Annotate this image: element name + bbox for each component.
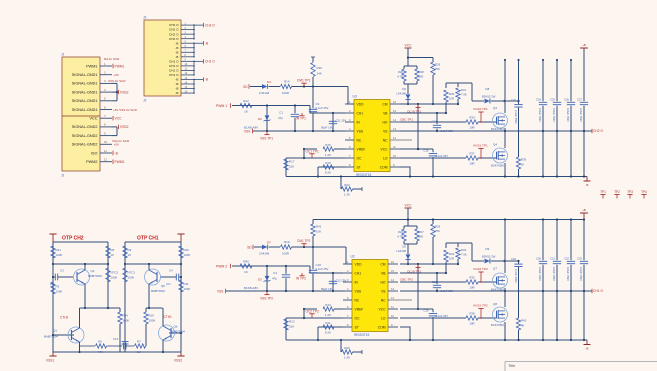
svg-text:100K: 100K bbox=[123, 319, 130, 323]
svg-text:-B: -B bbox=[205, 41, 208, 45]
svg-text:2.2uF 250V: 2.2uF 250V bbox=[514, 110, 518, 124]
svg-text:TP2: TP2 bbox=[614, 190, 620, 194]
svg-text:4.7R: 4.7R bbox=[397, 75, 403, 79]
svg-text:R14: R14 bbox=[284, 80, 290, 84]
svg-text:R19: R19 bbox=[284, 240, 290, 244]
svg-text:VCC: VCC bbox=[115, 117, 123, 121]
svg-text:CH2 O: CH2 O bbox=[169, 28, 179, 32]
svg-text:R37: R37 bbox=[469, 152, 475, 156]
svg-text:PWM2: PWM2 bbox=[86, 160, 97, 164]
svg-text:56pF 16V: 56pF 16V bbox=[321, 126, 333, 130]
svg-text:OC1 TP1: OC1 TP1 bbox=[306, 150, 319, 154]
svg-text:1N4148: 1N4148 bbox=[259, 91, 270, 95]
svg-text:LS4148: LS4148 bbox=[396, 249, 406, 253]
svg-text:12: 12 bbox=[393, 136, 396, 140]
svg-text:800: 800 bbox=[419, 75, 424, 79]
svg-text:C4: C4 bbox=[169, 269, 173, 273]
svg-text:-B: -B bbox=[205, 78, 208, 82]
svg-text:BUK765M: BUK765M bbox=[491, 127, 504, 131]
svg-text:OTP CH1: OTP CH1 bbox=[137, 236, 159, 242]
svg-text:MMBT3904: MMBT3904 bbox=[44, 335, 58, 339]
svg-text:2.2uF 25V: 2.2uF 25V bbox=[436, 154, 449, 158]
svg-text:C33: C33 bbox=[511, 98, 516, 102]
svg-text:75K: 75K bbox=[435, 67, 440, 71]
svg-text:R32: R32 bbox=[449, 252, 455, 256]
svg-text:-B: -B bbox=[175, 50, 178, 54]
svg-text:47p: 47p bbox=[278, 116, 283, 120]
svg-text:51K: 51K bbox=[289, 325, 294, 329]
svg-text:CH1 O: CH1 O bbox=[169, 73, 179, 77]
svg-text:VDD: VDD bbox=[355, 262, 363, 266]
svg-text:SIGNAL-GND2: SIGNAL-GND2 bbox=[72, 143, 98, 147]
svg-text:7.5K: 7.5K bbox=[461, 93, 467, 97]
svg-text:C3: C3 bbox=[60, 269, 64, 273]
svg-text:OC-B TP1: OC-B TP1 bbox=[407, 110, 421, 114]
svg-text:CM1 TP2: CM1 TP2 bbox=[297, 239, 311, 243]
svg-text:VSS2: VSS2 bbox=[120, 90, 129, 94]
svg-text:R15: R15 bbox=[325, 143, 331, 147]
svg-text:J1: J1 bbox=[61, 53, 65, 57]
svg-text:75K: 75K bbox=[435, 229, 440, 233]
svg-text:VREF: VREF bbox=[355, 307, 364, 311]
svg-text:OC2 TP2: OC2 TP2 bbox=[306, 310, 319, 314]
svg-text:+5V VSS for SCR: +5V VSS for SCR bbox=[113, 108, 138, 112]
svg-text:C26: C26 bbox=[564, 98, 569, 102]
svg-text:10: 10 bbox=[104, 140, 108, 144]
svg-text:6.8uF 450V: 6.8uF 450V bbox=[579, 108, 583, 122]
svg-text:1K: 1K bbox=[244, 270, 248, 274]
svg-text:VSS: VSS bbox=[357, 129, 364, 133]
svg-text:C21: C21 bbox=[550, 257, 555, 261]
svg-text:-B: -B bbox=[175, 91, 178, 95]
svg-text:R29: R29 bbox=[435, 225, 441, 229]
svg-text:6.8uF 450V: 6.8uF 450V bbox=[538, 108, 542, 122]
svg-text:11: 11 bbox=[104, 149, 107, 153]
svg-text:D4: D4 bbox=[267, 80, 271, 84]
svg-text:1.2K: 1.2K bbox=[325, 153, 331, 157]
svg-text:C27: C27 bbox=[577, 98, 582, 102]
svg-text:PWM2: PWM2 bbox=[115, 160, 125, 164]
svg-text:R38: R38 bbox=[469, 312, 475, 316]
svg-text:NTC2: NTC2 bbox=[111, 271, 119, 275]
svg-text:CH2 O: CH2 O bbox=[593, 129, 604, 133]
svg-text:COM: COM bbox=[380, 165, 388, 169]
svg-text:Q6: Q6 bbox=[174, 325, 178, 329]
svg-text:R3: R3 bbox=[56, 285, 60, 289]
svg-text:C4: C4 bbox=[273, 271, 277, 275]
svg-text:R26: R26 bbox=[398, 70, 404, 74]
svg-text:PWM 2: PWM 2 bbox=[216, 265, 227, 269]
svg-text:R22: R22 bbox=[344, 183, 350, 187]
svg-text:10R: 10R bbox=[469, 322, 474, 326]
svg-text:16: 16 bbox=[393, 100, 396, 104]
svg-text:R16: R16 bbox=[325, 161, 331, 165]
svg-text:R10: R10 bbox=[325, 303, 331, 307]
svg-text:CH2 O: CH2 O bbox=[205, 23, 215, 27]
svg-text:1K: 1K bbox=[244, 110, 248, 114]
svg-text:HO: HO bbox=[383, 120, 388, 124]
svg-text:R20: R20 bbox=[184, 248, 190, 252]
svg-text:U3: U3 bbox=[353, 95, 357, 99]
svg-text:OC: OC bbox=[355, 316, 361, 320]
svg-text:14K: 14K bbox=[317, 72, 322, 76]
svg-text:VGS1 TP1: VGS1 TP1 bbox=[473, 144, 488, 148]
svg-text:6.8uF 450V: 6.8uF 450V bbox=[566, 267, 570, 281]
svg-text:VREF: VREF bbox=[357, 147, 366, 151]
svg-text:R27: R27 bbox=[419, 230, 425, 234]
svg-text:Q2: Q2 bbox=[91, 269, 95, 273]
svg-text:CH1 O: CH1 O bbox=[593, 289, 604, 293]
svg-text:Q3: Q3 bbox=[493, 106, 497, 110]
svg-text:PWM1: PWM1 bbox=[115, 64, 125, 68]
svg-text:800: 800 bbox=[419, 235, 424, 239]
svg-text:1.3K: 1.3K bbox=[344, 193, 350, 197]
svg-text:51K: 51K bbox=[289, 165, 294, 169]
svg-text:CM: CM bbox=[382, 102, 387, 106]
svg-text:CH2 O: CH2 O bbox=[169, 32, 179, 36]
svg-text:IRS2NT15: IRS2NT15 bbox=[354, 333, 370, 337]
svg-text:CTH1: CTH1 bbox=[164, 315, 173, 319]
svg-text:LO: LO bbox=[383, 156, 388, 160]
svg-text:CH1: CH1 bbox=[355, 271, 362, 275]
svg-text:OC: OC bbox=[357, 156, 363, 160]
svg-text:1M: 1M bbox=[137, 350, 142, 354]
svg-text:C20: C20 bbox=[536, 257, 541, 261]
svg-text:B5V92 2W: B5V92 2W bbox=[482, 94, 496, 98]
svg-text:PWM1: PWM1 bbox=[86, 64, 97, 68]
svg-text:C11 25V: C11 25V bbox=[336, 119, 347, 123]
svg-text:R11: R11 bbox=[325, 321, 331, 325]
svg-text:10R: 10R bbox=[449, 257, 454, 261]
svg-text:SIGNAL-GND2: SIGNAL-GND2 bbox=[72, 134, 98, 138]
svg-text:+5V: +5V bbox=[114, 73, 119, 77]
svg-text:R8: R8 bbox=[111, 248, 115, 252]
svg-text:R23: R23 bbox=[398, 230, 404, 234]
svg-text:TP3: TP3 bbox=[627, 190, 633, 194]
svg-text:VGS2 TP2: VGS2 TP2 bbox=[473, 267, 488, 271]
svg-text:NC: NC bbox=[381, 298, 386, 302]
svg-text:VDD: VDD bbox=[357, 102, 365, 106]
svg-text:Q4: Q4 bbox=[493, 143, 497, 147]
svg-text:R41: R41 bbox=[316, 225, 322, 229]
svg-text:C34: C34 bbox=[511, 257, 516, 261]
svg-text:VSS for SCR: VSS for SCR bbox=[108, 79, 126, 83]
svg-text:C23: C23 bbox=[577, 257, 582, 261]
svg-text:PWM 1: PWM 1 bbox=[216, 104, 227, 108]
svg-text:10: 10 bbox=[391, 314, 394, 318]
svg-text:R7: R7 bbox=[137, 340, 141, 344]
svg-text:6.8uF 450V: 6.8uF 450V bbox=[579, 267, 583, 281]
svg-text:-B: -B bbox=[586, 183, 589, 187]
svg-text:14: 14 bbox=[391, 278, 394, 282]
svg-text:VGS1 TP2: VGS1 TP2 bbox=[473, 304, 488, 308]
svg-text:Q7: Q7 bbox=[493, 267, 497, 271]
svg-text:100K: 100K bbox=[184, 253, 191, 257]
svg-text:13: 13 bbox=[391, 287, 394, 291]
svg-text:-B: -B bbox=[175, 46, 178, 50]
svg-text:Rd for SCR: Rd for SCR bbox=[104, 57, 120, 61]
svg-text:B5V92 2W: B5V92 2W bbox=[482, 254, 496, 258]
svg-text:10R: 10R bbox=[469, 162, 474, 166]
svg-text:-B: -B bbox=[586, 347, 589, 351]
svg-text:13: 13 bbox=[393, 127, 396, 131]
svg-text:-B: -B bbox=[175, 87, 178, 91]
svg-text:VSS: VSS bbox=[217, 290, 223, 294]
svg-text:14: 14 bbox=[393, 118, 396, 122]
svg-text:HO: HO bbox=[381, 280, 386, 284]
svg-text:6.8uF 450V: 6.8uF 450V bbox=[552, 108, 556, 122]
svg-text:BUK765M: BUK765M bbox=[491, 164, 504, 168]
svg-text:VSS TP2: VSS TP2 bbox=[260, 296, 273, 300]
svg-text:1K: 1K bbox=[111, 253, 115, 257]
svg-text:10R: 10R bbox=[469, 286, 474, 290]
svg-text:VGS2 TP1: VGS2 TP1 bbox=[473, 107, 488, 111]
svg-text:D2: D2 bbox=[258, 117, 262, 121]
svg-text:D8: D8 bbox=[486, 87, 490, 91]
svg-text:+B: +B bbox=[582, 208, 586, 212]
svg-text:6.8uF 450V: 6.8uF 450V bbox=[538, 267, 542, 281]
svg-text:-B: -B bbox=[175, 55, 178, 59]
svg-text:J2: J2 bbox=[143, 16, 147, 20]
svg-text:SIGNAL-GND1: SIGNAL-GND1 bbox=[72, 108, 98, 112]
svg-text:R39: R39 bbox=[521, 158, 527, 162]
svg-text:CH1 O: CH1 O bbox=[169, 59, 179, 63]
svg-text:2.2uF 250V: 2.2uF 250V bbox=[514, 269, 518, 283]
svg-text:ISO: ISO bbox=[91, 151, 98, 155]
svg-text:R43: R43 bbox=[521, 319, 527, 323]
svg-text:COM: COM bbox=[378, 325, 386, 329]
svg-text:R5: R5 bbox=[98, 340, 102, 344]
svg-text:C19: C19 bbox=[423, 309, 429, 313]
svg-text:C25: C25 bbox=[550, 98, 555, 102]
svg-text:BUK765M: BUK765M bbox=[491, 287, 504, 291]
svg-text:VSS: VSS bbox=[355, 289, 362, 293]
svg-text:R28: R28 bbox=[419, 70, 425, 74]
svg-text:+B: +B bbox=[582, 43, 586, 47]
svg-text:D9: D9 bbox=[486, 247, 490, 251]
svg-text:CBC TP2: CBC TP2 bbox=[400, 277, 413, 281]
svg-text:Q8: Q8 bbox=[493, 302, 497, 306]
svg-text:IN TP2: IN TP2 bbox=[296, 277, 306, 281]
svg-text:VCC: VCC bbox=[405, 44, 413, 48]
svg-text:10K: 10K bbox=[316, 230, 321, 234]
svg-text:CH1 O: CH1 O bbox=[205, 60, 215, 64]
svg-text:100K: 100K bbox=[56, 290, 63, 294]
svg-text:R9: R9 bbox=[128, 248, 132, 252]
svg-text:12: 12 bbox=[104, 158, 108, 162]
svg-text:10R: 10R bbox=[469, 126, 474, 130]
svg-text:R21: R21 bbox=[56, 248, 62, 252]
svg-text:47p: 47p bbox=[272, 277, 277, 281]
svg-text:15: 15 bbox=[393, 109, 396, 113]
svg-text:D3: D3 bbox=[258, 277, 262, 281]
svg-text:NTC1: NTC1 bbox=[128, 271, 136, 275]
svg-text:CBC TP1: CBC TP1 bbox=[400, 117, 413, 121]
svg-text:R40: R40 bbox=[243, 259, 249, 263]
svg-text:ST: ST bbox=[357, 165, 361, 169]
svg-text:SIGNAL-GND1: SIGNAL-GND1 bbox=[72, 90, 98, 94]
svg-text:BUK765M: BUK765M bbox=[491, 323, 504, 327]
svg-text:16: 16 bbox=[391, 260, 394, 264]
svg-text:25n: 25n bbox=[50, 282, 55, 286]
svg-text:-B: -B bbox=[175, 82, 178, 86]
svg-text:R34: R34 bbox=[469, 116, 475, 120]
svg-text:B1X8LA8V: B1X8LA8V bbox=[244, 286, 258, 290]
svg-text:D6: D6 bbox=[402, 87, 406, 91]
svg-text:1K: 1K bbox=[521, 163, 525, 167]
svg-text:C24: C24 bbox=[536, 98, 541, 102]
svg-text:56pF 16V: 56pF 16V bbox=[321, 287, 333, 291]
svg-text:J1: J1 bbox=[61, 174, 65, 178]
svg-text:10R: 10R bbox=[449, 97, 454, 101]
svg-text:100K: 100K bbox=[56, 253, 63, 257]
svg-text:VSS: VSS bbox=[244, 130, 250, 134]
svg-text:1K: 1K bbox=[128, 253, 132, 257]
svg-text:CM: CM bbox=[380, 262, 385, 266]
svg-text:MMBT3904: MMBT3904 bbox=[171, 330, 185, 334]
svg-text:NC: NC bbox=[357, 138, 362, 142]
svg-text:OC-B TP2: OC-B TP2 bbox=[407, 270, 421, 274]
svg-text:100K: 100K bbox=[149, 319, 156, 323]
svg-text:CH2 O: CH2 O bbox=[169, 23, 179, 27]
svg-text:VSS1: VSS1 bbox=[46, 359, 54, 363]
svg-text:VSS TP1: VSS TP1 bbox=[260, 136, 273, 140]
svg-text:SIGNAL-GND1: SIGNAL-GND1 bbox=[72, 73, 98, 77]
svg-text:MMBT3904: MMBT3904 bbox=[151, 289, 165, 293]
svg-text:100R: 100R bbox=[282, 251, 289, 255]
svg-text:CH2 O: CH2 O bbox=[169, 37, 179, 41]
svg-text:R13: R13 bbox=[289, 320, 295, 324]
svg-text:4K: 4K bbox=[521, 324, 525, 328]
svg-text:TP1: TP1 bbox=[600, 190, 606, 194]
svg-text:VSS2: VSS2 bbox=[120, 125, 129, 129]
svg-text:-B: -B bbox=[175, 78, 178, 82]
svg-text:C15: C15 bbox=[423, 149, 429, 153]
svg-text:VCC: VCC bbox=[381, 147, 389, 151]
svg-text:VCC: VCC bbox=[379, 307, 387, 311]
svg-text:ST: ST bbox=[355, 325, 359, 329]
svg-text:VCC: VCC bbox=[89, 117, 97, 121]
svg-text:0.1uF 25V: 0.1uF 25V bbox=[316, 267, 329, 271]
svg-text:R25: R25 bbox=[344, 346, 350, 350]
svg-text:C12 25V: C12 25V bbox=[336, 279, 347, 283]
svg-text:SD: SD bbox=[247, 246, 252, 250]
svg-text:R30: R30 bbox=[449, 92, 455, 96]
svg-text:SD: SD bbox=[243, 85, 248, 89]
svg-text:C1: C1 bbox=[279, 111, 283, 115]
svg-text:CTH2: CTH2 bbox=[60, 316, 69, 320]
svg-text:100R: 100R bbox=[282, 91, 289, 95]
svg-text:LO: LO bbox=[381, 316, 386, 320]
svg-text:1N4148: 1N4148 bbox=[259, 251, 270, 255]
svg-text:6.8uF 450V: 6.8uF 450V bbox=[552, 267, 556, 281]
svg-text:2.2uF 25V: 2.2uF 25V bbox=[436, 314, 449, 318]
svg-text:VCC: VCC bbox=[405, 204, 413, 208]
svg-text:Q5: Q5 bbox=[161, 284, 165, 288]
svg-text:R19: R19 bbox=[149, 314, 155, 318]
svg-text:SIGNAL-GND1: SIGNAL-GND1 bbox=[72, 82, 98, 86]
svg-text:VSS2: VSS2 bbox=[174, 359, 182, 363]
svg-text:R36: R36 bbox=[317, 66, 323, 70]
svg-text:8.2K: 8.2K bbox=[325, 171, 331, 175]
svg-text:R11: R11 bbox=[184, 282, 189, 286]
svg-text:NC: NC bbox=[383, 138, 388, 142]
svg-text:R12: R12 bbox=[243, 99, 249, 103]
svg-text:J2: J2 bbox=[143, 99, 147, 103]
svg-text:4.7K: 4.7K bbox=[97, 350, 103, 354]
svg-text:4.7R: 4.7R bbox=[397, 235, 403, 239]
svg-text:LS4148: LS4148 bbox=[396, 92, 406, 96]
svg-text:1.3K: 1.3K bbox=[344, 356, 350, 360]
svg-text:15: 15 bbox=[391, 269, 394, 273]
svg-text:6.8uF 450V: 6.8uF 450V bbox=[566, 108, 570, 122]
svg-text:R29: R29 bbox=[435, 63, 441, 67]
svg-text:TP4: TP4 bbox=[641, 190, 647, 194]
svg-text:R17: R17 bbox=[289, 160, 295, 164]
svg-text:+5V: +5V bbox=[114, 143, 119, 147]
svg-text:SIGNAL-GND2: SIGNAL-GND2 bbox=[72, 125, 98, 129]
svg-text:OTP CH2: OTP CH2 bbox=[62, 236, 84, 242]
svg-text:U2: U2 bbox=[351, 255, 355, 259]
svg-text:0.1uF 25V: 0.1uF 25V bbox=[316, 106, 329, 110]
svg-text:CH1: CH1 bbox=[357, 111, 364, 115]
svg-text:12: 12 bbox=[391, 296, 394, 300]
svg-text:-B: -B bbox=[175, 41, 178, 45]
svg-text:C22: C22 bbox=[564, 257, 569, 261]
svg-text:NC: NC bbox=[355, 298, 360, 302]
svg-text:R33: R33 bbox=[461, 248, 467, 252]
svg-text:Title: Title bbox=[508, 363, 516, 368]
svg-text:D7: D7 bbox=[267, 240, 271, 244]
svg-text:100K: 100K bbox=[184, 287, 191, 291]
svg-text:CM1 TP1: CM1 TP1 bbox=[297, 79, 311, 83]
svg-text:IN TP1: IN TP1 bbox=[296, 117, 306, 121]
svg-text:7.5K: 7.5K bbox=[461, 253, 467, 257]
svg-text:MMBT3904: MMBT3904 bbox=[88, 274, 102, 278]
svg-text:8.2K: 8.2K bbox=[325, 331, 331, 335]
svg-text:D5: D5 bbox=[402, 245, 406, 249]
svg-text:10: 10 bbox=[393, 154, 396, 158]
svg-text:R31: R31 bbox=[461, 88, 467, 92]
svg-text:1.2K: 1.2K bbox=[325, 313, 331, 317]
svg-text:SIGNAL-GND1: SIGNAL-GND1 bbox=[72, 99, 98, 103]
svg-text:47n: 47n bbox=[166, 282, 171, 286]
svg-text:CH1 O: CH1 O bbox=[169, 64, 179, 68]
svg-text:CH1 O: CH1 O bbox=[169, 69, 179, 73]
svg-text:C13: C13 bbox=[113, 337, 119, 341]
svg-text:Q1: Q1 bbox=[53, 329, 57, 333]
svg-text:R35: R35 bbox=[469, 276, 475, 280]
svg-text:100K: 100K bbox=[128, 276, 135, 280]
svg-text:100K: 100K bbox=[111, 276, 118, 280]
